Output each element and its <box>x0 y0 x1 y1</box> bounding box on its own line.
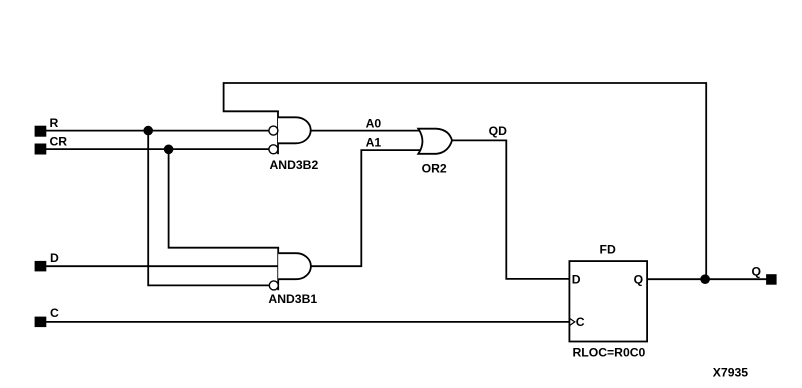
svg-text:FD: FD <box>600 242 616 256</box>
svg-text:R: R <box>50 116 59 130</box>
svg-text:C: C <box>50 306 59 320</box>
svg-text:A0: A0 <box>366 117 382 131</box>
svg-text:Q: Q <box>634 273 643 287</box>
svg-text:D: D <box>572 273 581 287</box>
svg-text:C: C <box>576 315 585 329</box>
svg-text:AND3B1: AND3B1 <box>268 292 317 306</box>
svg-text:D: D <box>50 251 59 265</box>
svg-text:CR: CR <box>50 135 68 149</box>
svg-text:QD: QD <box>489 124 507 138</box>
svg-text:RLOC=R0C0: RLOC=R0C0 <box>573 345 646 359</box>
svg-text:OR2: OR2 <box>422 162 447 176</box>
svg-text:AND3B2: AND3B2 <box>270 158 319 172</box>
svg-text:Q: Q <box>752 264 761 278</box>
svg-text:X7935: X7935 <box>713 365 748 379</box>
svg-text:A1: A1 <box>366 136 382 150</box>
